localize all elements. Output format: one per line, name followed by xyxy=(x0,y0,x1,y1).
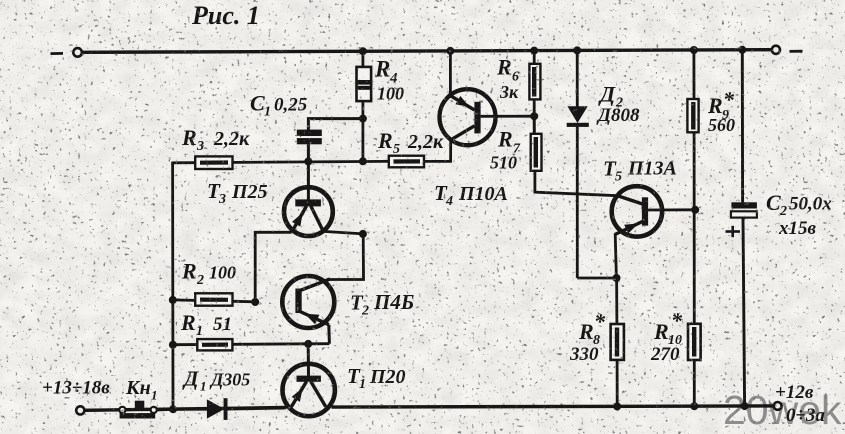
label R10* 270 xyxy=(650,308,683,365)
label R1 51 xyxy=(180,310,232,339)
resistor R7 xyxy=(531,116,542,171)
wire: left column (R3 left to bottom rail) xyxy=(171,162,174,410)
wire: R9/R10 column xyxy=(693,50,696,406)
resistor R4 xyxy=(357,67,372,101)
wire: top rail (negative bus) xyxy=(82,50,771,53)
label +12в xyxy=(775,382,814,403)
node: R6/R7/T4 base xyxy=(530,112,538,120)
node: top rail / R4 xyxy=(359,47,367,55)
label 0÷3а xyxy=(786,405,825,426)
node: R4 column / C1 top xyxy=(359,115,367,123)
label D1 Д305 xyxy=(182,367,250,394)
label D2 Д808 xyxy=(596,82,640,127)
node: T2 base / R2 / T3 emitter xyxy=(251,298,259,306)
label R4 100 xyxy=(374,57,404,104)
node: T5 collector / R9-R10 column xyxy=(691,206,699,214)
pushbutton Kn1 xyxy=(84,401,174,419)
terminal top-left xyxy=(73,48,82,57)
minus sign left of top terminal xyxy=(51,52,64,55)
capacitor C2 (electrolytic) xyxy=(726,50,757,406)
transistor T2 (П4Б) xyxy=(282,276,334,344)
label +13÷18в xyxy=(42,378,110,399)
wire: node down to T2 collector xyxy=(327,234,364,280)
wire: R6 column xyxy=(533,51,536,117)
node: top rail / R6 xyxy=(530,47,538,55)
resistor R9 xyxy=(687,99,698,132)
transistor T3 (П25) xyxy=(284,162,333,237)
node: top rail / C2 xyxy=(738,46,746,54)
terminal bottom-right xyxy=(774,402,782,410)
resistor R6 xyxy=(529,64,540,100)
label T3 П25 xyxy=(207,179,268,207)
transistor T4 (П10А) xyxy=(424,89,534,161)
capacitor C1 xyxy=(297,119,363,162)
label T1 П20 xyxy=(347,364,406,392)
node: T3/T2 collectors xyxy=(359,230,367,238)
wire: T4 emitter from top rail xyxy=(449,51,452,96)
wire: R4 column xyxy=(361,51,364,161)
node: bottom rail / R8 xyxy=(613,402,621,410)
node: bottom rail / C2 xyxy=(741,402,749,410)
label R8* 330 xyxy=(569,309,606,365)
node: left column / R2 xyxy=(169,296,177,304)
wire: R1 line to T2 emitter xyxy=(173,344,330,345)
node: T5 emitter / D2 / R8 xyxy=(613,274,621,282)
resistor R5 xyxy=(389,156,424,168)
watermark 20wek xyxy=(723,387,842,433)
label R5 2,2к xyxy=(377,128,444,157)
label T2 П4Б xyxy=(350,290,414,319)
transistor T5 (П13А) xyxy=(612,186,696,278)
node: base line / C1-T3 xyxy=(304,158,312,166)
label R3 2,2к xyxy=(181,125,250,154)
transistor T1 (П20) xyxy=(283,344,335,416)
resistor R8 xyxy=(611,278,624,406)
resistor R3 xyxy=(195,156,232,169)
label R7 510 xyxy=(490,127,521,173)
resistor R2 xyxy=(173,293,255,305)
node: T1 base / R1 / T2 emitter xyxy=(304,340,312,348)
wire: bottom rail (positive output bus) xyxy=(85,406,774,410)
terminal top-right xyxy=(772,46,780,54)
node: top rail / T4 emitter xyxy=(446,47,454,55)
title Рис. 1 xyxy=(191,1,260,30)
label C2 50,0х х15в xyxy=(766,190,832,239)
label T4 П10А xyxy=(434,181,508,209)
minus sign right of top terminal xyxy=(790,50,803,53)
zener diode D2 (Д808) xyxy=(567,50,617,278)
label Kn1 xyxy=(125,377,158,403)
diode D1 (Д305) xyxy=(173,398,284,420)
node: top rail / R9 xyxy=(690,46,698,54)
node: left column / R1 xyxy=(169,341,177,349)
label T5 П13А xyxy=(603,157,677,185)
wire: R7 to T5 base xyxy=(535,171,618,196)
wire: T3 emitter to T2 base column xyxy=(255,232,291,302)
wire: base line R3..C1..R4..R5 xyxy=(173,161,390,163)
node: bottom rail / left column xyxy=(169,405,177,413)
label C1 0,25 xyxy=(250,91,308,120)
node: bottom rail / R10 xyxy=(690,402,698,410)
node: top rail / D2 xyxy=(573,46,581,54)
resistor R1 xyxy=(197,339,232,350)
terminal bottom-left xyxy=(76,406,84,414)
label R6 3к xyxy=(496,55,519,103)
node: base line / R4 column xyxy=(359,157,367,165)
label R9* 560 xyxy=(707,87,735,135)
resistor R10 xyxy=(688,324,701,360)
wire: T3 collector to node xyxy=(323,231,363,234)
label R2 100 xyxy=(181,259,236,289)
